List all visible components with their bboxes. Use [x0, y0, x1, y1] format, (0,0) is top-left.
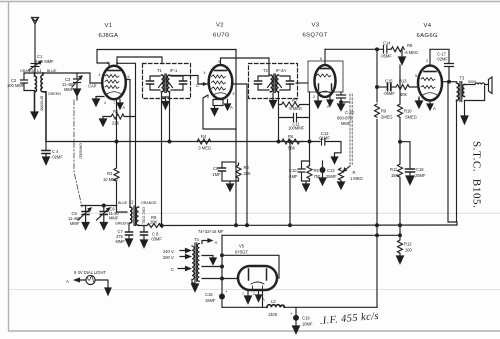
capacitor C14 — [384, 46, 392, 54]
svg-text:10 MEG: 10 MEG — [103, 177, 118, 182]
svg-text:T2: T2 — [263, 68, 269, 73]
svg-text:·01MF: ·01MF — [318, 136, 330, 141]
electrolytic C13 — [319, 161, 326, 185]
wire V2 top cap to T2 — [221, 58, 270, 75]
svg-text:R: R — [353, 170, 356, 175]
svg-text:6U7G: 6U7G — [213, 33, 230, 39]
svg-text:A: A — [327, 104, 330, 109]
svg-text:ORANGE: ORANGE — [141, 201, 157, 205]
svg-text:2: 2 — [253, 292, 255, 296]
svg-text:R9: R9 — [381, 109, 387, 114]
svg-text:25MF: 25MF — [326, 174, 337, 179]
svg-text:EP30566: EP30566 — [40, 96, 44, 111]
resistor R11 — [398, 142, 403, 225]
wire T1 secondary AVC — [169, 97, 171, 142]
wire T4 HT arrow A — [202, 241, 209, 244]
wire T4 heater tap — [202, 278, 238, 280]
svg-text:C18: C18 — [416, 167, 424, 172]
node V5 plate line junction — [221, 254, 224, 257]
capacitor C11 — [279, 114, 310, 122]
T2 coils — [268, 74, 282, 93]
svg-text:80K: 80K — [400, 92, 408, 97]
choke L3 — [267, 305, 284, 308]
node C20 shield tap — [340, 101, 343, 104]
wire V4 screen loop C17 — [430, 49, 449, 65]
svg-text:L2: L2 — [129, 200, 134, 205]
svg-text:4: 4 — [99, 73, 101, 77]
svg-text:22K: 22K — [112, 121, 120, 126]
capacitor C20 — [337, 92, 346, 104]
svg-text:GREEN: GREEN — [115, 222, 128, 226]
svg-text:16MF: 16MF — [205, 298, 216, 303]
paper fold lines — [9, 213, 500, 289]
ground arrow V5 — [247, 290, 249, 296]
heater arrow A V1 — [119, 100, 121, 104]
svg-text:S.T.C. B105.: S.T.C. B105. — [471, 141, 483, 209]
node R2 top — [115, 140, 118, 143]
svg-text:C19: C19 — [302, 316, 310, 321]
wire screen vertical — [309, 92, 311, 161]
ground arrow V1 — [93, 99, 100, 106]
node C6 top — [102, 204, 105, 207]
diode load line — [399, 65, 401, 104]
capacitor C15 — [388, 84, 391, 91]
svg-text:·05MF: ·05MF — [383, 91, 395, 96]
V3 shield box — [308, 61, 343, 92]
wire osc grid vertical — [117, 63, 136, 207]
node heater line junction — [221, 277, 224, 280]
node diode line junction — [376, 86, 379, 89]
svg-text:6J8GA: 6J8GA — [99, 33, 119, 39]
ganged tuning dashed link — [74, 100, 82, 207]
C arrow into V2 — [201, 83, 206, 85]
svg-text:MMF: MMF — [64, 87, 74, 92]
svg-text:A: A — [66, 279, 69, 284]
dial light — [75, 275, 112, 295]
wire T2 to V3 — [296, 82, 308, 84]
heater arrow A V4 — [429, 101, 431, 105]
T2 primary tuning capacitor — [258, 76, 269, 90]
ground arrow V2 — [211, 109, 218, 116]
ground arrow T3 — [464, 101, 466, 116]
svg-text:2MEG: 2MEG — [381, 115, 393, 120]
svg-text:GREEN: GREEN — [48, 92, 61, 96]
capacitor C1 trimmer — [29, 62, 41, 71]
node T4 tap junction — [221, 265, 224, 268]
T1 coils — [159, 74, 173, 93]
AVC network verticals — [376, 49, 378, 307]
svg-text:8: 8 — [207, 95, 209, 99]
svg-text:C15: C15 — [385, 79, 393, 84]
heater arrow A V2 — [227, 100, 229, 105]
svg-text:L1: L1 — [37, 68, 42, 73]
node grid-line junctions — [289, 140, 292, 143]
capacitor C4 — [42, 142, 50, 165]
cathode network C10 R5 — [298, 161, 312, 191]
svg-text:T4: T4 — [194, 237, 200, 242]
wire V5 cathode down — [262, 290, 264, 307]
gang capacitor line C5 C6 — [81, 205, 117, 207]
node AVC top junction — [376, 48, 379, 51]
tube V3 electrodes — [317, 69, 332, 94]
svg-text:BLUE: BLUE — [47, 69, 57, 73]
svg-text:R5: R5 — [314, 168, 320, 173]
resistor R10 — [375, 104, 380, 117]
B+ output line — [222, 306, 377, 308]
transformer T1 dashed box — [143, 64, 191, 99]
wire V1 cathode ground — [96, 97, 104, 100]
svg-text:C9: C9 — [213, 166, 219, 171]
svg-text:C14: C14 — [383, 41, 391, 46]
svg-text:CAP: CAP — [88, 84, 97, 89]
svg-text:·03MF: ·03MF — [150, 237, 162, 242]
speaker — [465, 77, 493, 101]
resistor R13 — [396, 85, 418, 90]
svg-text:ORANGE: ORANGE — [20, 69, 36, 73]
svg-text:750: 750 — [314, 174, 322, 179]
wire T2 secondary return — [278, 93, 280, 142]
svg-text:V3: V3 — [312, 23, 320, 29]
wire V2 plate right — [233, 84, 248, 225]
svg-text:MMF: MMF — [341, 121, 351, 126]
svg-text:·02MF: ·02MF — [51, 155, 63, 160]
capacitor C5 — [78, 206, 91, 230]
resistor R8 — [391, 47, 404, 52]
svg-text:5000: 5000 — [468, 80, 476, 84]
svg-text:R8: R8 — [407, 43, 413, 48]
svg-text:6·3V DIAL LIGHT: 6·3V DIAL LIGHT — [74, 270, 106, 275]
resistor R4 — [197, 139, 211, 144]
svg-text:·05MF: ·05MF — [380, 54, 392, 59]
svg-text:V5: V5 — [239, 244, 245, 249]
coil L2 — [130, 206, 139, 226]
tube V5 electrodes — [249, 269, 267, 290]
svg-text:V4: V4 — [424, 23, 432, 29]
ground arrow T4 — [192, 280, 195, 285]
svg-text:R3: R3 — [244, 165, 250, 170]
coil L1 — [35, 73, 47, 142]
tube V5 envelope — [238, 266, 277, 290]
capacitor C2 — [21, 73, 35, 91]
heater arrow A V5 — [258, 290, 260, 295]
svg-text:R13: R13 — [399, 79, 407, 84]
svg-text:240 V: 240 V — [163, 249, 174, 254]
tube V4 envelope — [418, 66, 442, 101]
svg-text:·02MF: ·02MF — [436, 57, 448, 62]
diode coupling line — [377, 86, 386, 88]
tube V1 envelope — [102, 66, 126, 100]
wire T4 tap to V5 — [202, 266, 222, 268]
wire V1 pin7 down — [116, 99, 118, 142]
svg-text:·5 MEG: ·5 MEG — [288, 106, 302, 111]
node R11 C18 junction — [399, 140, 402, 143]
svg-text:BLUE: BLUE — [118, 201, 128, 205]
wire T1 secondary to V2 grid — [170, 76, 208, 85]
svg-text:MMF: MMF — [116, 239, 126, 244]
resistor R12 — [398, 225, 403, 256]
svg-text:3-30 MMF: 3-30 MMF — [35, 59, 54, 64]
svg-text:6Y5GT: 6Y5GT — [235, 250, 248, 255]
svg-text:1400: 1400 — [268, 312, 278, 317]
svg-text:8: 8 — [418, 97, 420, 101]
wire plate node down — [448, 82, 457, 225]
tube V4 electrodes — [421, 72, 437, 96]
svg-text:T1: T1 — [157, 68, 163, 73]
resistor R6 — [282, 139, 304, 144]
svg-text:C-20: C-20 — [345, 110, 355, 115]
svg-text:5: 5 — [415, 74, 417, 78]
svg-text:+: + — [290, 311, 293, 316]
svg-text:100: 100 — [405, 248, 413, 253]
svg-text:3: 3 — [218, 60, 220, 64]
svg-text:R7: R7 — [292, 98, 298, 103]
ground arrow under L1 — [31, 112, 38, 119]
svg-text:56K: 56K — [288, 146, 296, 151]
wire T3 primary return — [456, 100, 458, 222]
svg-text:C16: C16 — [205, 292, 213, 297]
svg-text:R11: R11 — [390, 167, 398, 172]
svg-text:660-875: 660-875 — [337, 116, 353, 121]
wire V1 pin8 to T1 — [117, 57, 162, 66]
component value labels — [7, 41, 476, 327]
capacitor C3 tuning gang — [72, 73, 82, 100]
svg-text:R6: R6 — [288, 134, 294, 139]
svg-text:T3: T3 — [460, 76, 466, 81]
transformer T2 dashed box — [249, 64, 298, 99]
svg-text:6: 6 — [128, 75, 130, 79]
wire aerial top bus — [24, 73, 103, 83]
mains input arrows — [178, 249, 191, 271]
T1 coil bottoms and ground — [162, 93, 170, 102]
svg-text:15K: 15K — [391, 173, 399, 178]
svg-text:·3 MEG: ·3 MEG — [197, 146, 211, 151]
resistor R2 — [114, 142, 119, 206]
wire V5 plate line — [222, 255, 279, 278]
svg-text:R10: R10 — [404, 109, 412, 114]
svg-text:IF-2A: IF-2A — [276, 68, 286, 73]
svg-text:100MMF: 100MMF — [288, 126, 305, 131]
svg-text:100 MMF: 100 MMF — [7, 83, 25, 88]
svg-text:8: 8 — [116, 61, 118, 65]
tube V2 envelope — [209, 65, 233, 99]
svg-text:200 V: 200 V — [163, 255, 174, 260]
electrolytic C19 — [293, 307, 300, 333]
resistor R1 — [100, 114, 131, 126]
svg-text:74+32+16 MF: 74+32+16 MF — [198, 229, 224, 234]
wire T4 bias tap — [202, 256, 213, 259]
svg-text:·1MF: ·1MF — [211, 172, 221, 177]
svg-text:C10: C10 — [289, 168, 297, 173]
tube V2 electrodes — [212, 71, 228, 96]
volume control shaft dashed link — [350, 94, 352, 166]
svg-text:V2: V2 — [216, 23, 224, 29]
resistor R11a — [398, 104, 403, 142]
capacitor C7 — [126, 223, 133, 247]
svg-text:7: 7 — [242, 292, 244, 296]
grid line y141 — [46, 141, 320, 143]
T1 secondary tuning capacitor — [171, 76, 183, 90]
svg-text:2: 2 — [313, 95, 315, 99]
wire V1 screen top bus — [97, 50, 236, 66]
wire V3 grid top — [324, 49, 326, 65]
svg-text:6: 6 — [320, 57, 322, 61]
T2 secondary tuning capacitor — [280, 76, 290, 90]
svg-text:C13: C13 — [327, 168, 335, 173]
wire screen node down — [289, 142, 291, 226]
capacitor C6 — [97, 206, 110, 230]
svg-text:R4: R4 — [201, 134, 207, 139]
cathode network C9 R3 — [219, 162, 242, 191]
svg-text:1 MEG: 1 MEG — [350, 176, 363, 181]
svg-text:R1: R1 — [113, 109, 119, 114]
ground arrow V3 — [315, 101, 322, 108]
svg-text:A: A — [215, 240, 218, 245]
tube V1 electrodes — [105, 71, 121, 95]
svg-text:C 4: C 4 — [52, 149, 59, 154]
svg-text:IF-1: IF-1 — [170, 68, 178, 73]
svg-text:·5MEG: ·5MEG — [404, 115, 417, 120]
tube V3 envelope — [315, 65, 336, 97]
svg-text:25K: 25K — [244, 171, 252, 176]
node bus A junctions — [160, 224, 163, 227]
svg-text:2: 2 — [104, 101, 106, 105]
svg-text:A: A — [262, 297, 265, 302]
T2 coil bottom ground — [272, 93, 274, 101]
svg-text:7: 7 — [114, 101, 116, 105]
svg-text:.I.F. 455 kc/s: .I.F. 455 kc/s — [319, 311, 379, 327]
wire blue tap to L2 — [117, 206, 128, 213]
heater arrow A V3 — [329, 97, 331, 101]
svg-text:·5 MEG: ·5 MEG — [404, 50, 418, 55]
svg-text:GANGED: GANGED — [79, 143, 83, 159]
svg-text:R12: R12 — [404, 242, 412, 247]
svg-text:25MF: 25MF — [415, 173, 426, 178]
svg-text:MMF: MMF — [70, 221, 80, 226]
resistor R7 — [279, 102, 310, 107]
svg-text:OSC COIL: OSC COIL — [142, 207, 146, 224]
transformer T4 — [192, 243, 200, 282]
wire T1 primary return — [161, 97, 163, 225]
svg-text:6SQ7GT: 6SQ7GT — [303, 33, 328, 39]
transformer T3 — [457, 82, 465, 102]
wire V2 cathode return — [203, 95, 236, 129]
svg-text:MMF: MMF — [109, 216, 119, 221]
B bus — [222, 234, 400, 236]
T1 primary tuning capacitor — [150, 76, 160, 90]
wire R8 down arrow — [401, 49, 403, 57]
svg-text:6AG6G: 6AG6G — [417, 33, 438, 39]
svg-text:C: C — [196, 83, 199, 88]
svg-text:5: 5 — [233, 92, 235, 96]
svg-text:R2: R2 — [107, 171, 113, 176]
AVC top wire — [325, 48, 383, 50]
svg-text:10MF: 10MF — [302, 322, 313, 327]
svg-text:3: 3 — [426, 59, 428, 63]
ground arrow V4 — [416, 101, 423, 108]
electrolytic C16 — [220, 294, 225, 299]
svg-text:·1MF: ·1MF — [288, 174, 298, 179]
node V4 plate junction — [448, 80, 451, 83]
V5 supply rail — [221, 235, 223, 307]
svg-text:L3: L3 — [271, 299, 276, 304]
capacitor C8 — [141, 226, 148, 248]
svg-text:A: A — [230, 105, 233, 110]
capacitor C17 — [445, 64, 454, 82]
heater box V2 — [213, 100, 223, 106]
capacitor C12 — [322, 139, 342, 158]
svg-text:20K: 20K — [150, 220, 158, 225]
svg-text:4: 4 — [204, 71, 206, 75]
wire V4 plate to T3 — [442, 81, 457, 83]
wire V1 plate to L2 — [126, 80, 130, 208]
antenna — [32, 18, 39, 74]
svg-text:A: A — [123, 105, 126, 110]
svg-text:V1: V1 — [105, 23, 113, 29]
node T1 secondary to grid line — [168, 140, 171, 143]
AVC bus A — [139, 224, 458, 228]
tube designation labels — [99, 23, 438, 40]
svg-text:A: A — [433, 106, 436, 111]
volume pot R5 — [338, 166, 351, 189]
svg-text:C: C — [171, 267, 174, 272]
capacitor C18 branch — [400, 142, 410, 169]
svg-text:3: 3 — [107, 61, 109, 65]
main B+ vertical from top bus — [235, 50, 237, 226]
